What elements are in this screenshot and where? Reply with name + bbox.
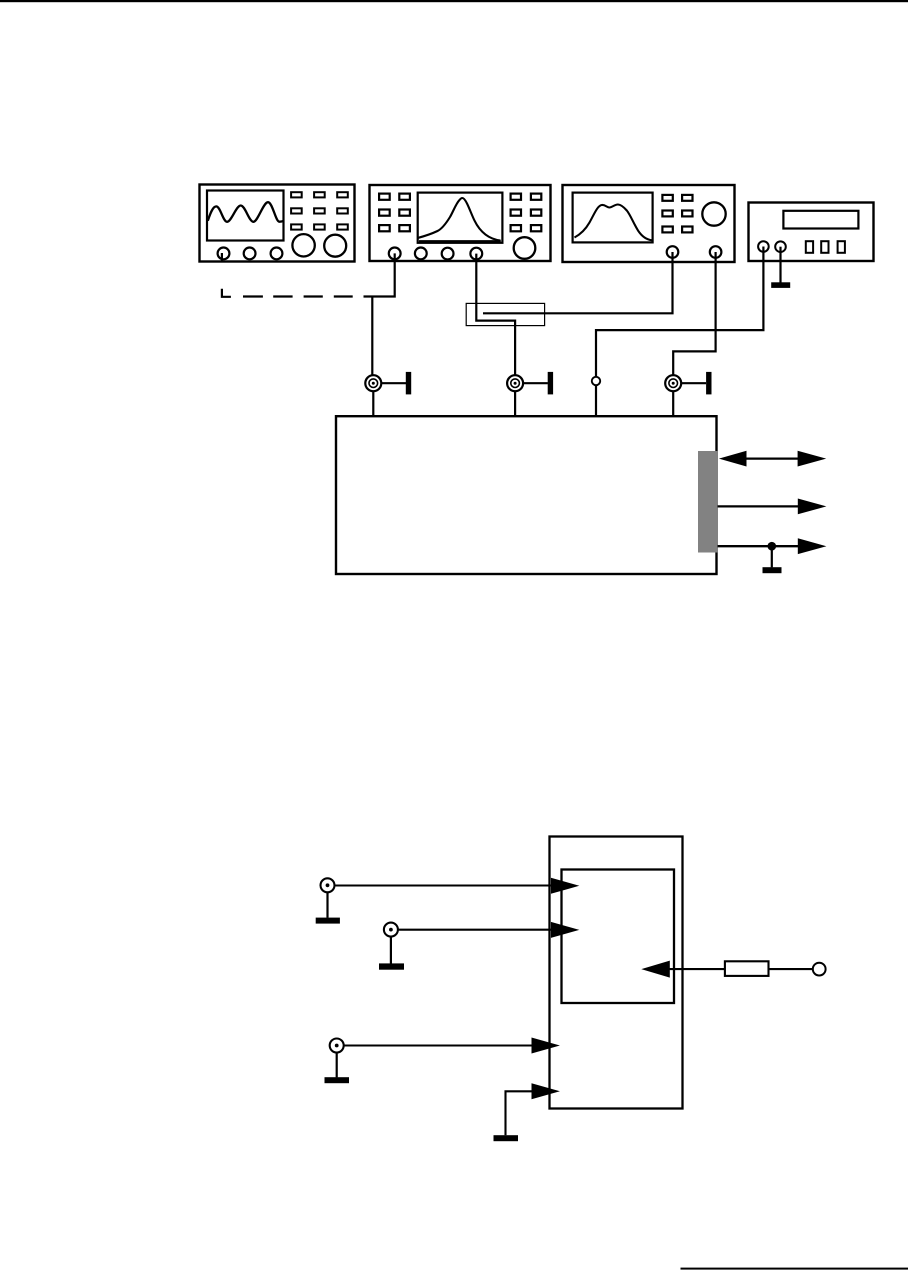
bus arrow (bidirectional) [719, 451, 826, 467]
attenuator (resistor) [725, 961, 769, 976]
wire: power meter input to node J4 [596, 247, 763, 377]
wire: signal generator second output to BNC J3 [673, 252, 715, 375]
module box (lower diagram) [550, 837, 683, 1109]
ground (power meter) [771, 247, 790, 288]
label box [466, 303, 544, 325]
wire: input B into inner box [398, 922, 579, 938]
ground wire into module box (bottom) [494, 1083, 560, 1141]
output arrow 3 with ground [718, 538, 827, 573]
BNC connector B with ground [379, 923, 404, 970]
signal generator [563, 185, 735, 262]
wire: spectrum analyzer input to BNC J1 [364, 253, 395, 375]
wire: spectrum analyzer tracking output to BNC J2 [476, 254, 515, 376]
BNC connector A with ground [316, 878, 340, 923]
node J4 (small connector) [592, 377, 600, 416]
BNC connector J3 with terminator [665, 372, 711, 416]
wire: signal generator output into label box [483, 252, 673, 313]
DUT box [336, 416, 717, 574]
wire: RF input through attenuator into inner box [641, 961, 725, 978]
inner RF section box [562, 870, 675, 1004]
output arrow 2 [718, 499, 827, 515]
BNC connector J1 with terminator [365, 372, 411, 416]
DUT edge connector (gray) [698, 451, 718, 553]
power meter [749, 203, 874, 262]
wire: attenuator to antenna terminal [769, 968, 813, 970]
oscilloscope [200, 185, 355, 262]
BNC connector J2 with terminator [507, 372, 553, 416]
wire: input C into module box [344, 1038, 560, 1054]
BNC connector C with ground [325, 1039, 350, 1084]
wire: input A into inner box [335, 878, 580, 894]
spectrum analyzer [370, 185, 551, 261]
antenna terminal (open circle) [813, 963, 826, 976]
wire (dashed): oscilloscope input to node A [222, 289, 353, 297]
